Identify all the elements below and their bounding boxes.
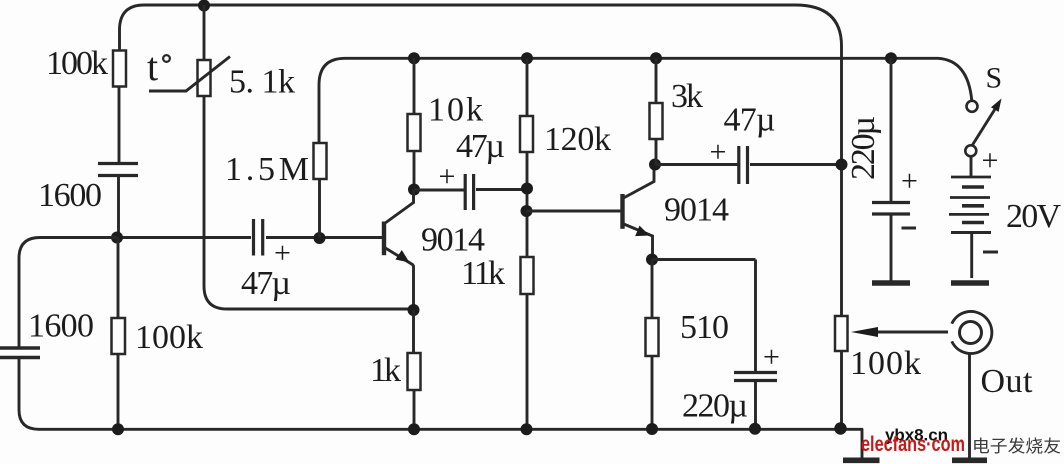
wire collector to 47u2 [414, 189, 464, 192]
svg-text:3k: 3k [671, 78, 703, 115]
svg-text:+: + [710, 136, 727, 169]
wire 1600 lower to bottom rail [19, 358, 39, 429]
switch S lever [972, 104, 999, 147]
wire cap to Q1 base [266, 236, 383, 239]
node Q2 base branch [521, 205, 533, 217]
out connector outer ring [952, 312, 992, 354]
svg-text:t: t [147, 44, 158, 89]
svg-text:S: S [986, 62, 1003, 95]
wire 220u1 to ground [890, 214, 893, 281]
svg-text:Out: Out [981, 363, 1034, 400]
resistor 100k lower-left lead [117, 238, 120, 319]
svg-text:+: + [439, 160, 456, 193]
battery stub bottom [970, 233, 973, 279]
resistor R 100k upper-left [113, 51, 126, 87]
svg-text:10k: 10k [428, 92, 483, 129]
ground bar bottom left [843, 457, 880, 463]
wire 100k lower to rail [117, 354, 120, 429]
capacitor 220u emitter [734, 373, 777, 381]
Q1 emitter arrow [395, 250, 409, 263]
node rail/pot [834, 422, 846, 434]
battery plate short 2 [962, 204, 984, 208]
node bus2/120k [521, 52, 533, 64]
Q2 emitter arrow [635, 226, 649, 237]
node 1.5M bottom / Q1 base [314, 232, 326, 244]
wire R100k bottom lead to C1600 [118, 87, 121, 164]
potentiometer 100k body [835, 316, 848, 351]
minus dash 220u1 [902, 227, 917, 230]
svg-text:+: + [982, 144, 999, 177]
wire base bus y237 [117, 236, 251, 239]
wire 47u2 to 120k node [476, 188, 527, 191]
node input bus left [111, 232, 123, 244]
wire 3k top lead [655, 58, 658, 103]
svg-text:9014: 9014 [421, 222, 485, 259]
wire 510 to rail [651, 356, 654, 429]
svg-text:510: 510 [680, 309, 729, 346]
node bus2/220u1 [885, 52, 897, 64]
battery plate short 3 [962, 221, 984, 225]
svg-text:1600: 1600 [28, 308, 94, 345]
thermistor 5.1k lead top [203, 5, 206, 60]
wire 120k bottom to nodes [526, 152, 529, 257]
Q2 emitter lead [623, 224, 653, 260]
battery minus dash [983, 251, 998, 254]
node Q2 collector [649, 159, 661, 171]
degree mark of t [163, 55, 170, 62]
switch S lever arrow [991, 99, 1002, 112]
wire Q2 base [527, 210, 622, 213]
ground bar under out [952, 457, 987, 463]
svg-text:100k: 100k [46, 45, 108, 82]
svg-text:11k: 11k [461, 255, 505, 292]
resistor 1.5M [314, 143, 327, 179]
svg-text:20V: 20V [1006, 198, 1061, 235]
transistor Q2 9014 bar [620, 194, 624, 229]
node Q1 collector [408, 184, 420, 196]
battery plate long 4 [951, 231, 991, 234]
transistor Q1 9014 bar [382, 222, 386, 256]
node Q2 emitter [646, 254, 658, 266]
svg-text:220µ: 220µ [682, 388, 748, 425]
wire Q2 emitter to 220u [652, 260, 756, 373]
svg-text:47µ: 47µ [456, 128, 505, 165]
capacitor 47u input [254, 219, 263, 256]
node Q1 emitter [408, 304, 420, 316]
svg-text:1.5M: 1.5M [225, 151, 309, 188]
resistor 10k [408, 114, 421, 151]
wire 220u1 top lead [890, 58, 893, 202]
wire rail end to ground [861, 429, 864, 459]
svg-text:电子发烧友: 电子发烧友 [972, 437, 1061, 456]
node rail/100k lower [112, 423, 124, 435]
node rail/510 [646, 423, 658, 435]
node bus2/3k [650, 52, 662, 64]
svg-text:5. 1k: 5. 1k [229, 64, 295, 101]
wire 10k bottom lead [413, 151, 416, 190]
Q2 collector lead [623, 165, 655, 199]
wire out to ground [968, 354, 971, 459]
battery plate long 2 [950, 196, 990, 199]
Q1 collector lead [385, 190, 414, 224]
svg-text:220µ: 220µ [845, 116, 882, 180]
resistor 1k lead [412, 310, 415, 353]
node 47u2/120k [521, 183, 533, 195]
node bus2/10k [408, 52, 420, 64]
svg-text:1600: 1600 [38, 177, 102, 214]
wire 1.5M bottom lead [318, 179, 321, 238]
svg-text:100k: 100k [850, 345, 921, 382]
node rail/11k [521, 423, 533, 435]
wire 47u3 to feedback line [750, 163, 842, 166]
node feedback/47u3 [836, 159, 848, 171]
wire bottom rail [39, 428, 863, 431]
svg-text:+: + [901, 165, 918, 198]
wire left input branch [19, 238, 117, 349]
svg-text:100k: 100k [135, 319, 203, 356]
svg-text:120k: 120k [544, 121, 611, 158]
capacitor 1600 upper [98, 164, 138, 176]
resistor 510 lead [651, 260, 654, 319]
resistor 100k lower-left [112, 318, 126, 354]
resistor 3k [650, 103, 663, 139]
svg-text:47µ: 47µ [241, 265, 291, 302]
battery plate short 1 [962, 185, 984, 189]
wire 220u2 to rail [754, 381, 757, 429]
potentiometer wiper line [877, 331, 948, 334]
wire bus2 with left curve to 1.5M [319, 58, 972, 143]
wire 1k to rail [413, 390, 416, 429]
switch S contact upper [967, 101, 978, 112]
resistor 120k [520, 116, 533, 152]
battery plate long 3 [949, 213, 989, 216]
svg-text:47µ: 47µ [724, 102, 776, 139]
svg-text:elecfans·com: elecfans·com [861, 433, 965, 456]
capacitor 47u output [739, 146, 748, 184]
Q1 emitter lead [385, 248, 414, 311]
resistor 1k [408, 353, 421, 390]
wire C1600 to node [117, 176, 120, 238]
battery stub top [970, 156, 973, 177]
thermistor strike line [149, 57, 230, 92]
wire 11k to rail [526, 294, 529, 429]
wire 120k top lead [526, 58, 529, 116]
out connector inner ring [960, 322, 982, 344]
capacitor 1600 lower [0, 348, 40, 358]
node rail/220u2 [749, 423, 761, 435]
wire top rail [120, 5, 842, 58]
node top rail / thermistor [198, 0, 210, 12]
resistor 510 [646, 318, 659, 356]
wire 10k top lead [413, 58, 416, 114]
svg-text:1k: 1k [370, 352, 401, 389]
resistor 11k [521, 257, 534, 294]
capacitor 220u supply [872, 203, 910, 215]
potentiometer wiper arrow [851, 327, 878, 337]
svg-text:+: + [274, 237, 291, 270]
svg-text:9014: 9014 [664, 192, 729, 229]
switch S contact lower [965, 145, 976, 156]
wire right feedback vertical [840, 58, 843, 428]
ground bar under 220u1 [872, 280, 910, 286]
battery plate long 1 [951, 176, 991, 179]
wire 3k bottom lead [655, 139, 738, 165]
thermistor 5.1k body [198, 60, 211, 96]
svg-text:+: + [763, 341, 780, 374]
capacitor 47u interstage [465, 174, 473, 210]
node rail/1k [408, 423, 420, 435]
ground bar under battery [951, 280, 989, 286]
wire thermistor down to emitter line [204, 96, 414, 309]
